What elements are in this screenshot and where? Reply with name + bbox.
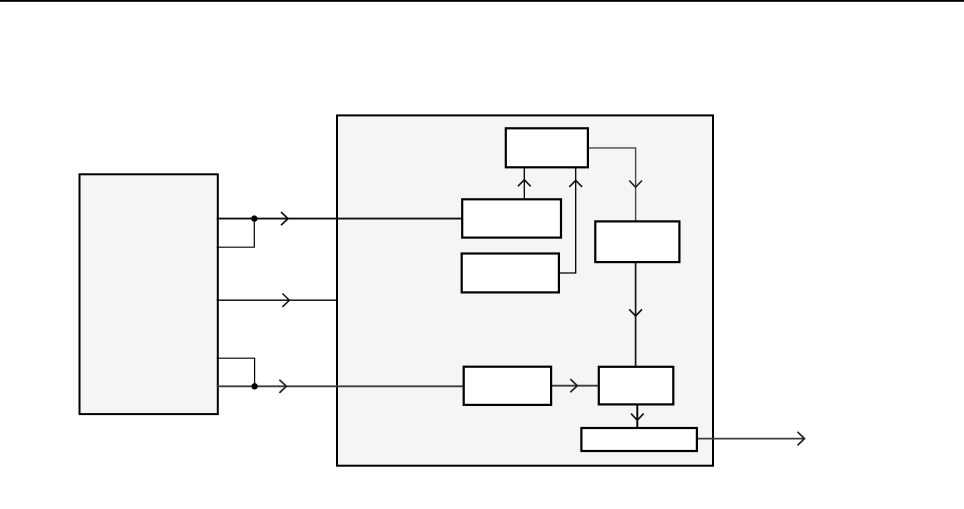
wire W8 (output from block B7) [697,438,804,440]
arrowhead A7 (down) [631,414,644,421]
wire W3 (bottom signal, left block to block B5) [217,385,464,387]
block B6 (lower right box) [599,367,674,405]
wire W10 (block B2 up into block B1) [523,167,525,199]
wire W1 (top signal, left block to block B2) [217,218,463,220]
block B7 (bottom wide box) [581,428,697,451]
wire W7 (block B6 down to block B7) [636,404,638,427]
block B1 (top inner box) [506,128,588,167]
block B2 [462,199,561,237]
arrowhead A9 (up) [569,180,582,187]
wire W2 (middle signal, left block to enclosure) [217,299,338,301]
wire W6 (block B4 down to block B6) [635,263,637,367]
junction dot J1 [251,215,257,221]
arrowhead A3 (right) [279,380,286,393]
wire W3 feedback loop stub [217,358,255,386]
arrowhead A10 (up) [518,180,531,187]
outer block LEFT (source block) [80,174,218,414]
wire W5 (block B1 right, over and down into block B4) [588,148,636,221]
subsystem enclosure box [337,115,713,465]
arrowhead A6 (down) [629,309,642,316]
block B4 (right middle box) [595,221,679,262]
arrowhead A4 (right) [570,379,577,392]
arrowhead A8 (right, output) [798,432,805,446]
arrowhead A2 (right) [282,294,289,307]
wire W9 (block B3 right, up into block B1) [559,167,576,273]
arrowhead A5 (down) [629,181,642,188]
top rule [0,0,964,2]
block B5 (lower left inner box) [464,367,551,405]
block B3 [462,254,559,293]
arrowhead A1 (right) [281,212,288,225]
junction dot J2 [251,383,257,389]
wire W4 (block B5 to block B6) [551,385,599,387]
wire W1 feedback loop stub [217,219,255,248]
